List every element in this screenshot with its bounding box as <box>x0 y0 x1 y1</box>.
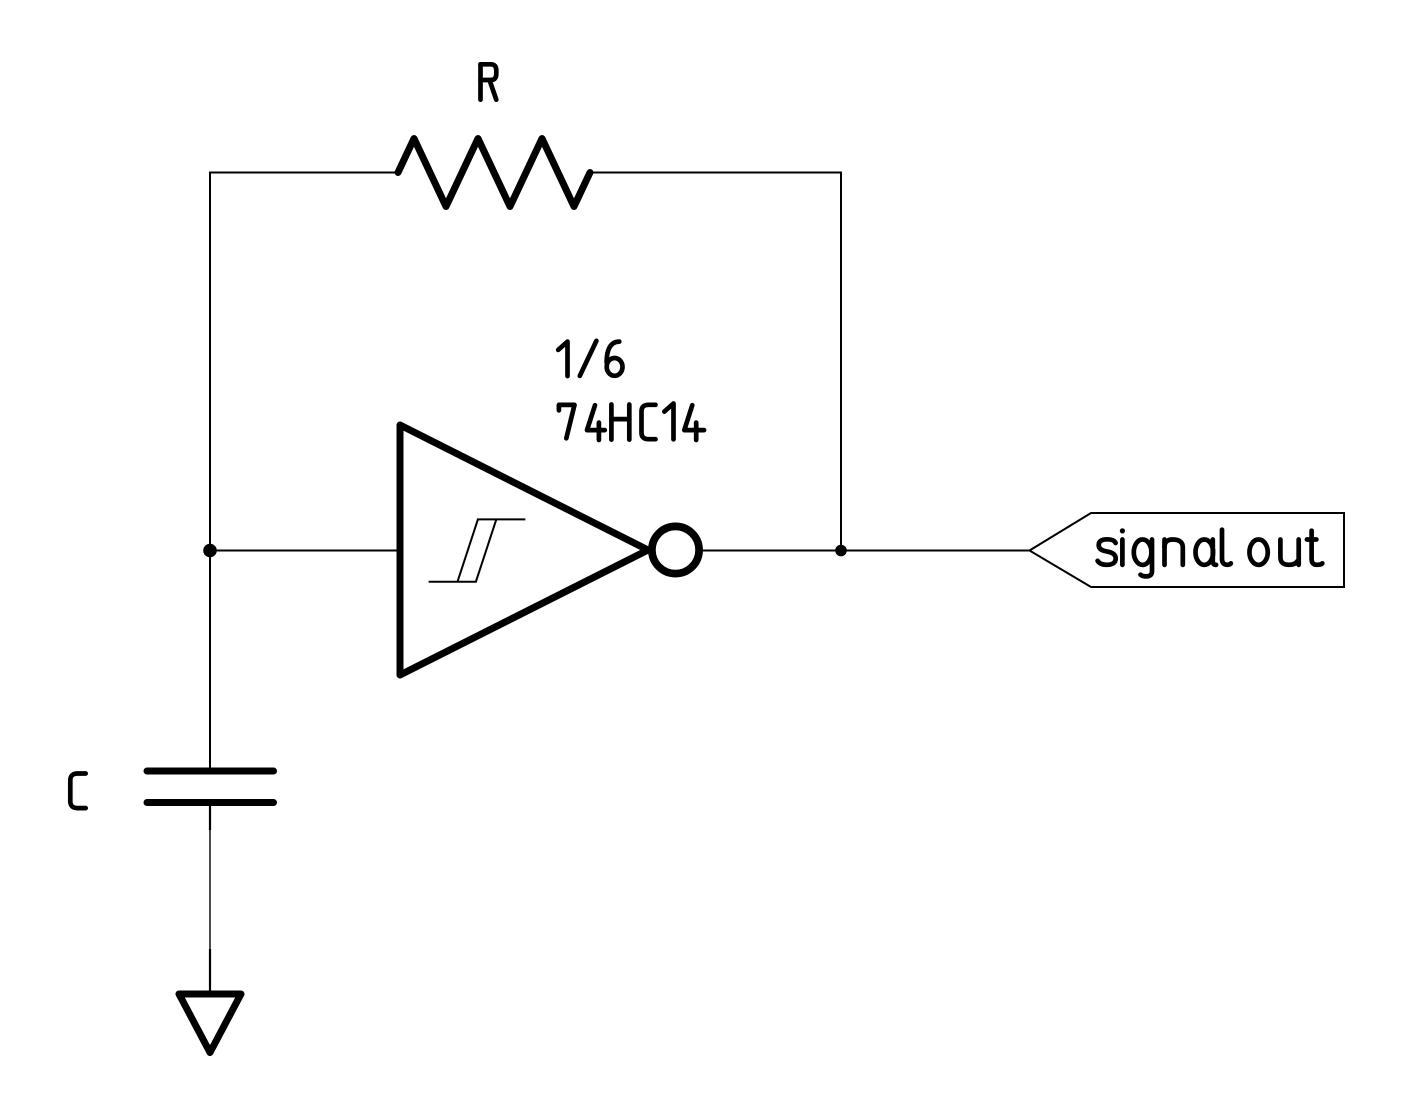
capacitor C top plate <box>147 768 274 775</box>
net flag outline: signal out <box>1030 513 1345 587</box>
wire: top horizontal right of R <box>590 172 842 174</box>
capacitor C bottom plate <box>147 799 274 806</box>
ground symbol <box>179 994 241 1053</box>
label 74HC14 (inverter part number) <box>559 405 575 438</box>
wire: capacitor to ground <box>209 830 211 949</box>
inverter output bubble <box>652 526 699 573</box>
label 1/6 (inverter unit) <box>558 342 567 377</box>
net label text: signal out <box>1098 539 1116 565</box>
wire: top horizontal left of R <box>209 172 399 174</box>
junction dot: input node <box>203 544 217 558</box>
junction dot: output node <box>835 545 847 557</box>
label C (capacitor reference) <box>70 774 85 809</box>
pin: capacitor bottom pin <box>209 803 211 831</box>
wire: output horizontal to signal out flag <box>703 550 1030 552</box>
hysteresis symbol inside inverter <box>429 519 526 581</box>
wire: feedback left vertical (top-left corner down to capacitor) <box>209 173 211 772</box>
resistor R <box>398 139 590 207</box>
pin: ground symbol pin <box>209 949 211 992</box>
wire: input horizontal (input node to inverter) <box>210 550 400 552</box>
inverter U1 triangle (74HC14 Schmitt-trigger inverter) <box>400 425 648 675</box>
wire: feedback right vertical (down to output node) <box>840 173 842 552</box>
label R (resistor reference) <box>478 64 483 99</box>
